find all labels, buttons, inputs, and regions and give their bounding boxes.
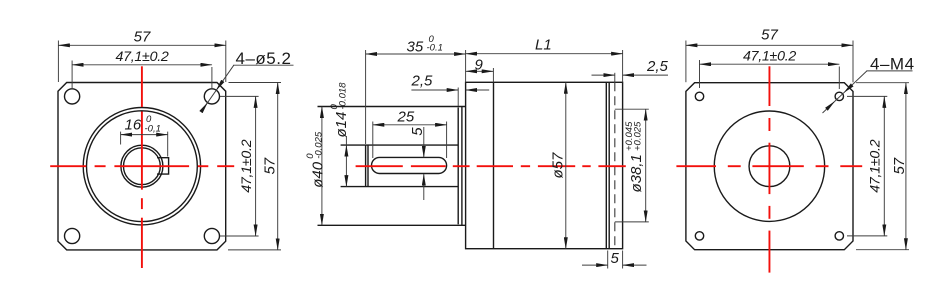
svg-text:57: 57 <box>261 157 278 174</box>
dim o14 text <box>329 82 350 138</box>
bore circle chamfer <box>123 148 160 185</box>
dim 57 right-of-right-view line <box>905 83 907 250</box>
centerline horizontal left view <box>50 165 86 167</box>
dim 47,1 right-of-left-view extension lines <box>220 95 259 97</box>
boss chamfer line <box>461 107 463 226</box>
flange outline right view <box>686 83 853 250</box>
keyway slot left view <box>157 158 169 174</box>
tapped hole top-right <box>835 92 843 100</box>
leader 4-o5.2 line <box>216 65 234 90</box>
svg-text:2,5: 2,5 <box>646 58 669 75</box>
leader 4-M4 underline <box>866 70 912 72</box>
dim 47,1 top-left-view extension lines <box>71 61 73 89</box>
svg-text:ø57: ø57 <box>549 152 566 179</box>
keyway slot middle view <box>372 157 447 173</box>
dim o38,1 text <box>624 121 645 193</box>
dim 25 line <box>373 124 447 126</box>
shaft end chamfer <box>367 145 369 187</box>
dim 16 extension lines <box>120 132 122 145</box>
svg-text:-0.018: -0.018 <box>337 82 348 110</box>
dim L1 extension right <box>622 50 624 82</box>
rear face double line <box>605 82 607 248</box>
shaft bottom edge + dim o14 ext <box>341 186 459 188</box>
dim 57 right-of-left-view line <box>277 83 279 250</box>
svg-text:ø14: ø14 <box>333 112 350 138</box>
svg-text:L1: L1 <box>535 37 552 54</box>
svg-text:4–M4: 4–M4 <box>870 54 915 73</box>
svg-text:35: 35 <box>407 38 424 55</box>
centerline horizontal right view <box>676 165 716 167</box>
dim 35 / L1 shared extension <box>465 50 467 82</box>
boss circle outer <box>83 108 200 225</box>
dim 5 keyway arrows <box>423 127 425 157</box>
svg-text:ø40: ø40 <box>309 161 326 188</box>
svg-text:4–ø5.2: 4–ø5.2 <box>236 49 292 68</box>
dim 57 right-of-left-view extension lines <box>228 249 281 251</box>
svg-text:-0,1: -0,1 <box>145 123 161 134</box>
dim 25 extension lines <box>372 122 374 159</box>
dim 47,1 top-right-view extension lines <box>699 60 701 88</box>
dim 2,5 right ext <box>614 73 616 83</box>
leader 4-M4 line <box>844 71 867 93</box>
boss top edge + dim o40 ext <box>318 106 466 108</box>
hidden recess edge top <box>615 108 649 110</box>
centerline vertical right view <box>768 66 770 106</box>
centerline vertical left view <box>141 66 143 107</box>
svg-text:47,1±0.2: 47,1±0.2 <box>868 139 884 192</box>
dim 2,5 right tails <box>592 74 615 76</box>
dim 57 right-of-right-view extension lines <box>856 249 909 251</box>
leader 4-o5.2 underline <box>233 64 293 66</box>
centerline horizontal middle view <box>356 165 403 167</box>
svg-text:5: 5 <box>409 127 426 136</box>
bolt hole top-left <box>65 89 80 104</box>
svg-text:2,5: 2,5 <box>411 72 434 89</box>
dim 47,1 right-of-right-view extension lines <box>847 235 887 237</box>
dim 57 top-left-view line <box>58 44 225 46</box>
svg-text:+0.025: +0.025 <box>632 121 643 151</box>
bolt hole top-right <box>204 89 219 104</box>
tapped hole bottom-right <box>835 232 843 240</box>
boss circle inner chamfer <box>86 111 197 222</box>
bore circle right view <box>749 146 790 187</box>
svg-text:16: 16 <box>125 117 142 134</box>
dim 16 line <box>121 134 168 136</box>
svg-text:9: 9 <box>475 57 484 74</box>
dim 35 extension line left <box>365 50 367 144</box>
boss bottom edge + dim o40 ext <box>318 224 466 226</box>
dim 47,1 top-left-view line <box>72 64 212 66</box>
body outline middle view <box>466 82 623 248</box>
dim 47,1 right-of-left-view line <box>255 96 257 236</box>
svg-text:25: 25 <box>397 109 415 126</box>
flange outline left view <box>58 83 226 250</box>
dim 2,5 left tails <box>411 89 458 91</box>
tapped hole bottom-left <box>695 232 703 240</box>
dim o14 line <box>345 136 347 145</box>
boss front face <box>457 108 459 225</box>
front plate seam <box>493 82 495 248</box>
svg-text:47,1±0.2: 47,1±0.2 <box>743 49 796 65</box>
tapped hole top-left <box>695 92 703 100</box>
dim o40 text <box>305 131 326 188</box>
hidden recess edge bottom <box>615 221 649 223</box>
dim 9 line <box>466 70 494 72</box>
svg-text:47,1±0.2: 47,1±0.2 <box>239 139 255 192</box>
dim 47,1 top-right-view line <box>700 63 840 65</box>
dim 57 top-left-view extension lines <box>57 41 59 83</box>
svg-text:-0.025: -0.025 <box>314 131 325 159</box>
svg-text:-0.1: -0.1 <box>427 43 443 54</box>
shaft top edge + dim o14 ext <box>341 144 459 146</box>
bolt hole bottom-right <box>204 228 219 243</box>
dim 35 line <box>366 53 466 55</box>
svg-text:5: 5 <box>611 250 620 267</box>
bore circle outer <box>121 145 163 187</box>
dim 5 bottom tails <box>582 264 608 266</box>
dim o57 line <box>565 82 567 248</box>
shaft end face <box>365 145 367 187</box>
dim L1 line <box>466 53 623 55</box>
dim o38,1 line <box>645 109 647 222</box>
svg-text:57: 57 <box>891 157 908 174</box>
dim 47,1 right-of-right-view line <box>883 96 885 236</box>
dim 5 bottom ext lines <box>607 251 609 269</box>
dim o40 line <box>321 107 323 226</box>
pilot circle right view <box>714 111 824 221</box>
svg-text:ø38,1: ø38,1 <box>628 154 645 192</box>
dim 57 top-right-view line <box>686 44 853 46</box>
svg-text:57: 57 <box>761 27 778 44</box>
dim 9 extension line <box>492 68 494 82</box>
bolt hole bottom-left <box>65 228 80 243</box>
hidden recess bottom dashed <box>614 82 616 248</box>
dim 57 top-right-view extension lines <box>685 41 687 83</box>
svg-text:57: 57 <box>134 29 151 46</box>
svg-text:47,1±0.2: 47,1±0.2 <box>115 49 168 65</box>
dim 2,5 left ext <box>457 88 459 107</box>
